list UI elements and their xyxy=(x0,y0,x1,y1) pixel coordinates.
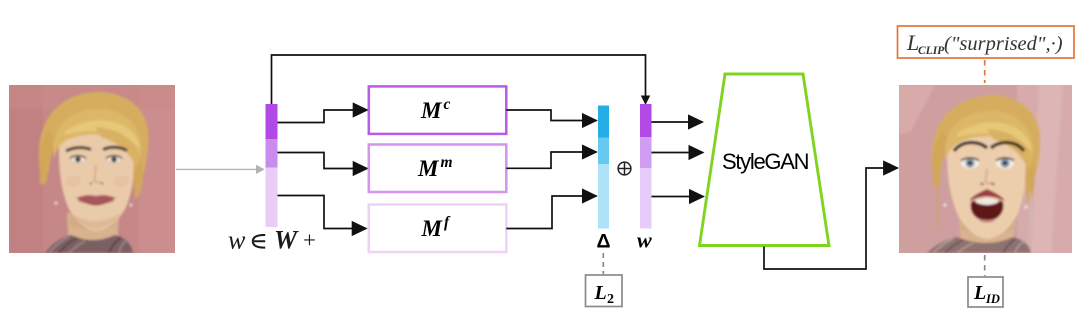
right hair lock xyxy=(1023,145,1035,203)
cheeks blush xyxy=(65,175,81,187)
element-of symbol xyxy=(253,235,265,248)
svg-text:w: w xyxy=(228,226,246,255)
fringe sweep xyxy=(53,109,141,165)
eye shadow xyxy=(70,154,87,163)
wire bar to Mc xyxy=(278,110,368,123)
mapper box Mm xyxy=(369,145,507,193)
nose xyxy=(986,169,993,183)
wide eyes xyxy=(961,157,979,168)
oplus symbol xyxy=(618,162,631,175)
dashed link output image to ID loss xyxy=(984,255,986,276)
open mouth xyxy=(971,198,1004,220)
loose strand left xyxy=(937,181,939,229)
arrow w bar to StyleGAN 1 xyxy=(652,121,703,123)
svg-text:("surprised",·): ("surprised",·) xyxy=(944,33,1063,55)
face xyxy=(947,115,1027,239)
label w in W+ xyxy=(228,226,316,255)
arrow w bar to StyleGAN 3 xyxy=(652,196,704,198)
delta bar mid segment xyxy=(598,138,609,165)
input photo (source face image) xyxy=(3,79,181,259)
neck xyxy=(67,213,119,251)
fringe over right temple xyxy=(95,127,139,169)
delta bar light segment xyxy=(598,164,609,229)
arrow w bar to StyleGAN 2 xyxy=(652,152,704,154)
mapper box Mf xyxy=(369,205,507,253)
latent bar medium segment xyxy=(266,139,278,168)
w bar top segment xyxy=(640,104,652,137)
w bar light segment xyxy=(640,168,652,229)
svg-text:L: L xyxy=(973,282,986,304)
strand right xyxy=(1029,191,1031,241)
dashed link CLIP box to output image xyxy=(984,60,986,83)
earring xyxy=(55,202,58,205)
delta bar top segment xyxy=(598,106,609,138)
patterned collar xyxy=(927,237,1031,253)
fringe sweep xyxy=(945,111,1033,167)
CLIP loss box xyxy=(898,26,1075,58)
wire Mc to delta xyxy=(506,110,596,121)
svg-text:Δ: Δ xyxy=(597,231,611,253)
svg-text:CLIP: CLIP xyxy=(918,45,945,57)
svg-text:StyleGAN: StyleGAN xyxy=(722,149,809,174)
output photo (surprised face) xyxy=(893,79,1078,259)
L2 loss box xyxy=(586,275,623,307)
svg-text:m: m xyxy=(441,154,453,171)
svg-text:W: W xyxy=(274,226,299,255)
wire bar to Mf xyxy=(278,196,367,229)
upper lip xyxy=(970,189,1004,201)
StyleGAN generator trapezoid xyxy=(700,74,830,246)
right hair lock xyxy=(131,143,143,199)
left hair lock xyxy=(932,131,949,188)
dashed link delta to L2 xyxy=(602,253,604,274)
svg-text:L: L xyxy=(594,282,607,304)
svg-text:M: M xyxy=(417,156,440,181)
lower lip xyxy=(978,219,996,223)
top skip wire into w bar xyxy=(272,55,646,104)
lips xyxy=(76,195,116,205)
mapper box Mc xyxy=(369,86,507,133)
latent code bar w in W+ (coarse segment) xyxy=(266,104,278,139)
svg-text:c: c xyxy=(444,96,451,113)
eyes xyxy=(71,157,85,163)
svg-text:2: 2 xyxy=(607,292,614,307)
gray arrow photo to latent bar xyxy=(176,165,265,174)
svg-text:M: M xyxy=(421,216,444,241)
wire Mm to delta xyxy=(506,152,596,168)
teeth xyxy=(975,198,999,205)
output wire StyleGAN to output image xyxy=(764,168,898,269)
svg-text:ID: ID xyxy=(985,292,1000,306)
jaw shadow xyxy=(71,213,121,229)
hair crown xyxy=(39,92,148,185)
neck xyxy=(959,217,1015,253)
ID loss box xyxy=(968,277,1003,307)
hair crown xyxy=(932,95,1041,187)
w bar mid segment xyxy=(640,137,652,168)
eyebrows xyxy=(66,148,91,151)
svg-text:M: M xyxy=(420,98,443,123)
wire Mf to delta xyxy=(506,196,596,229)
eyebrows raised thick xyxy=(954,143,987,152)
earring xyxy=(944,204,947,207)
forehead light xyxy=(955,117,1017,145)
latent bar fine segment xyxy=(266,168,278,228)
patterned collar xyxy=(45,235,133,253)
left hair lock xyxy=(39,129,55,184)
svg-text:+: + xyxy=(303,228,316,253)
forehead light xyxy=(65,119,123,145)
nose xyxy=(95,165,102,182)
face xyxy=(59,113,135,231)
svg-text:w: w xyxy=(637,228,652,253)
wire bar to Mm xyxy=(278,153,368,169)
